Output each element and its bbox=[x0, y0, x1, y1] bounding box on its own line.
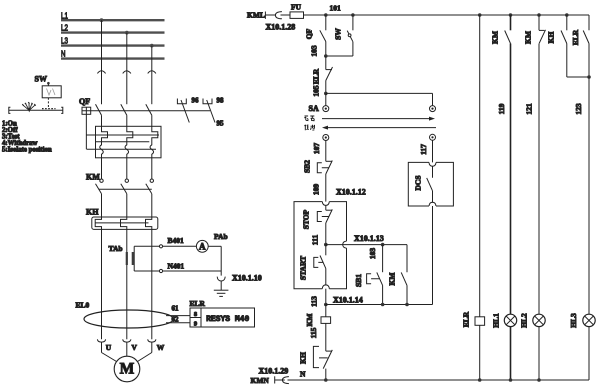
svg-text:N401: N401 bbox=[168, 262, 185, 271]
svg-text:121: 121 bbox=[525, 103, 534, 115]
label FU bbox=[291, 3, 302, 12]
wire to ground bbox=[220, 281, 222, 290]
svg-text:HL3: HL3 bbox=[569, 313, 578, 328]
core balance CT EL0 bbox=[84, 310, 173, 328]
wire phase A KH to motor plug bbox=[101, 229, 103, 339]
wire ELR coil column bbox=[479, 15, 481, 317]
drawout socket motor U bbox=[97, 339, 105, 342]
label L3 bbox=[61, 36, 68, 46]
pushbutton SB2 NC bbox=[317, 161, 332, 202]
box right socket bbox=[343, 241, 347, 248]
label position list bbox=[2, 121, 52, 154]
svg-text:ELR: ELR bbox=[312, 68, 321, 84]
svg-text:103: 103 bbox=[310, 45, 319, 57]
wire X10.1.13 rail bbox=[326, 244, 407, 246]
wire 123 bbox=[588, 77, 590, 314]
svg-text:KM: KM bbox=[305, 314, 314, 327]
svg-text:L1: L1 bbox=[61, 10, 68, 20]
svg-text:95: 95 bbox=[217, 120, 225, 128]
junction dot L1 tap bbox=[100, 18, 104, 22]
wire DCS to rail bbox=[432, 206, 434, 305]
label KM lamp1 rotated bbox=[491, 31, 500, 44]
label ELR coil rotated bbox=[462, 311, 471, 327]
wire ammeter to ground drop bbox=[208, 246, 221, 275]
label SB2 rotated bbox=[303, 160, 312, 173]
svg-text:123: 123 bbox=[574, 103, 583, 115]
label ELR power bbox=[190, 299, 206, 308]
svg-text:SB2: SB2 bbox=[303, 160, 312, 173]
thermal relay body KH bbox=[92, 217, 158, 229]
svg-text:111: 111 bbox=[311, 235, 320, 246]
svg-text:V: V bbox=[132, 343, 138, 352]
svg-text:KM: KM bbox=[388, 273, 397, 286]
label L1 bbox=[61, 10, 68, 20]
svg-text:101: 101 bbox=[330, 4, 342, 13]
contact KM NC lamp2 bbox=[539, 15, 546, 314]
svg-text:RESYS M40: RESYS M40 bbox=[206, 315, 249, 324]
label N bbox=[61, 49, 66, 59]
label X10.1.28 bbox=[266, 23, 296, 32]
drawout socket X10.1.10 bbox=[217, 277, 225, 281]
svg-text:HL1: HL1 bbox=[492, 313, 501, 328]
switch SW box bbox=[42, 82, 61, 98]
current transformer TAb bars bbox=[126, 252, 134, 265]
label 96 bbox=[192, 97, 200, 105]
label U bbox=[106, 343, 112, 352]
label 101 bbox=[330, 4, 342, 13]
wire W to motor bbox=[138, 342, 152, 361]
label SW rotated bbox=[334, 28, 343, 40]
wire phase B drop from L2 bbox=[126, 33, 128, 105]
node SB1 top dot bbox=[381, 243, 385, 247]
node 105 dot bbox=[324, 92, 328, 96]
wire U to motor bbox=[102, 342, 117, 361]
label 103 rotated bbox=[310, 45, 319, 57]
svg-text:L2: L2 bbox=[61, 23, 68, 33]
label KM seal rotated bbox=[388, 273, 397, 286]
wire phase B KH to motor plug bbox=[126, 229, 128, 339]
label DCS rotated bbox=[414, 175, 423, 190]
node 103 dot bbox=[324, 54, 328, 58]
SA pole local bottom bbox=[323, 135, 329, 141]
svg-text:KH: KH bbox=[547, 32, 556, 44]
node HL2 bottom dot bbox=[537, 378, 541, 382]
fuse FU bbox=[290, 12, 304, 19]
label N control bbox=[300, 370, 306, 379]
selector position fan bbox=[22, 102, 35, 112]
svg-text:L3: L3 bbox=[61, 36, 68, 46]
box top socket bbox=[322, 202, 329, 206]
label 107 rotated bbox=[312, 143, 321, 155]
wire phase B breaker to KM bbox=[126, 158, 128, 179]
KM main contact phase B bbox=[121, 179, 129, 217]
label HL3 rotated bbox=[569, 313, 578, 328]
svg-text:X10.1.12: X10.1.12 bbox=[336, 188, 366, 197]
ammeter PAb bbox=[196, 240, 208, 252]
breaker body box QF bbox=[96, 126, 162, 158]
label START rotated bbox=[299, 256, 308, 280]
ELR NC contact control bbox=[326, 56, 333, 93]
svg-text:X10.1.29: X10.1.29 bbox=[259, 366, 289, 375]
label SB1 rotated bbox=[354, 274, 363, 287]
contact KM lamp1 bbox=[505, 15, 511, 314]
svg-text:HL2: HL2 bbox=[520, 313, 529, 328]
SA wiper local bbox=[322, 126, 436, 130]
coil KM bbox=[321, 305, 331, 352]
label KM lamp2 rotated bbox=[524, 31, 533, 44]
label X10.1.13 bbox=[354, 234, 384, 243]
label 113 rotated bbox=[310, 296, 319, 307]
svg-text:A: A bbox=[199, 242, 206, 252]
wire phase C KH to motor plug bbox=[151, 229, 153, 339]
QF operator link wire bbox=[85, 114, 87, 149]
svg-text:KM: KM bbox=[524, 31, 533, 44]
wire 62 bbox=[166, 322, 190, 324]
label SA bbox=[309, 104, 319, 113]
svg-text:X10.1.28: X10.1.28 bbox=[266, 23, 296, 32]
TAb secondary loop bbox=[133, 246, 135, 271]
label ELR rotated bbox=[312, 68, 321, 84]
control top rail bbox=[304, 14, 590, 16]
svg-text:113: 113 bbox=[310, 296, 319, 307]
svg-text:W: W bbox=[157, 343, 165, 352]
relay RESYS M40 bbox=[201, 308, 255, 327]
KM main contact phase A bbox=[96, 179, 104, 217]
label 109 rotated bbox=[312, 184, 321, 196]
motor M bbox=[114, 356, 140, 382]
svg-text:SW: SW bbox=[334, 28, 343, 40]
node KM seal dot bbox=[405, 303, 409, 307]
svg-text:TAb: TAb bbox=[109, 244, 123, 253]
label KM coil rotated bbox=[305, 314, 314, 327]
KH heater element phase B bbox=[121, 217, 127, 229]
svg-text:109: 109 bbox=[312, 184, 321, 196]
svg-text:X10.1.10: X10.1.10 bbox=[232, 274, 262, 283]
wire B401 bbox=[134, 245, 196, 248]
coil ELR bbox=[475, 317, 485, 380]
label 115 rotated bbox=[309, 327, 318, 338]
node SB1 bottom dot bbox=[381, 303, 385, 307]
bus bar N bbox=[61, 57, 165, 59]
node ELR column bottom dot bbox=[478, 378, 482, 382]
SW aux contact control bbox=[326, 15, 353, 56]
label QF rotated bbox=[305, 28, 314, 39]
breaker internal bar A bbox=[87, 134, 160, 136]
label L2 bbox=[61, 23, 68, 33]
wire HL1 bottom bbox=[510, 327, 512, 380]
label ELR lamp rotated bbox=[571, 29, 580, 45]
label X10.1.14 bbox=[333, 296, 363, 305]
lamp HL3 bbox=[583, 314, 595, 326]
svg-text:98: 98 bbox=[217, 97, 225, 105]
node KH column top dot bbox=[565, 13, 569, 17]
svg-text:103: 103 bbox=[368, 248, 377, 260]
pushbutton START NO bbox=[314, 245, 326, 285]
KM seal-in contact bbox=[401, 245, 407, 305]
node 111 dot bbox=[324, 243, 328, 247]
wire 61 bbox=[166, 315, 190, 317]
label KH lamp rotated bbox=[547, 32, 556, 44]
label PAb bbox=[214, 232, 228, 241]
pushbutton SB1 NO bbox=[367, 245, 383, 305]
label STOP rotated bbox=[302, 209, 311, 229]
label V bbox=[132, 343, 138, 352]
label KML bbox=[247, 11, 265, 20]
svg-text:EL0: EL0 bbox=[76, 301, 90, 310]
QF pole contact phase B bbox=[121, 104, 127, 126]
svg-text:ELR: ELR bbox=[190, 299, 206, 308]
SW mechanical dashed link bbox=[42, 98, 56, 109]
svg-text:107: 107 bbox=[312, 143, 321, 155]
label KH power bbox=[86, 207, 99, 216]
svg-text:U: U bbox=[106, 343, 112, 352]
label TAb bbox=[109, 244, 123, 253]
contact KH lamp bbox=[561, 15, 589, 77]
KH heater element phase A bbox=[95, 217, 101, 229]
label X10.1.12 bbox=[336, 188, 366, 197]
svg-text:KML: KML bbox=[247, 11, 265, 20]
svg-text:B401: B401 bbox=[168, 236, 185, 245]
QF aux contact cradle 96 bbox=[177, 99, 186, 104]
breaker internal bar C bbox=[87, 148, 157, 150]
bus bar L2 bbox=[61, 31, 165, 33]
junction dot L2 tap bbox=[125, 31, 129, 35]
wire N401 bbox=[134, 269, 221, 272]
label W bbox=[157, 343, 165, 352]
svg-text:62: 62 bbox=[172, 316, 180, 324]
svg-text:START: START bbox=[299, 256, 308, 280]
svg-text:QF: QF bbox=[305, 28, 314, 39]
svg-text:61: 61 bbox=[172, 305, 180, 313]
DCS box top socket bbox=[429, 162, 436, 166]
wire V to motor bbox=[126, 342, 128, 356]
label KH control rotated bbox=[299, 352, 308, 364]
label SW bbox=[35, 75, 47, 84]
connector socket KML bbox=[275, 12, 290, 19]
label local CJK bbox=[304, 125, 314, 131]
DCS box bbox=[408, 162, 453, 206]
label remote CJK bbox=[304, 116, 314, 121]
wire HL3 bottom bbox=[588, 327, 590, 380]
drawout plug chevron phase C bbox=[148, 71, 156, 74]
terminal box 8 9 bbox=[190, 308, 201, 327]
svg-text:117: 117 bbox=[419, 144, 428, 155]
breaker release element phase C bbox=[150, 126, 158, 158]
svg-text:STOP: STOP bbox=[302, 209, 311, 229]
svg-text:KM: KM bbox=[491, 31, 500, 44]
SA pole remote bottom bbox=[430, 134, 436, 140]
breaker operator box QF bbox=[82, 107, 91, 114]
svg-text:105: 105 bbox=[312, 85, 321, 97]
local station box bbox=[294, 202, 347, 289]
label 95 bbox=[217, 120, 225, 128]
QF aux contact blade 96 bbox=[181, 100, 189, 123]
wire X10.1.14 rail bbox=[326, 304, 433, 306]
bus bar L3 bbox=[61, 44, 165, 46]
lamp HL2 bbox=[533, 314, 545, 326]
ground symbol bbox=[214, 290, 229, 296]
label HL2 rotated bbox=[520, 313, 529, 328]
label 117 rotated bbox=[419, 144, 428, 155]
breaker internal bar B bbox=[96, 141, 149, 143]
wire phase A drop from L1 bbox=[101, 20, 103, 104]
svg-text:SW: SW bbox=[35, 75, 47, 84]
SA wiper remote bbox=[322, 117, 435, 121]
node 119 top dot bbox=[509, 13, 513, 17]
svg-text:X10.1.13: X10.1.13 bbox=[354, 234, 384, 243]
drawout plug chevron phase A bbox=[97, 71, 105, 74]
wire phase C breaker to KM bbox=[151, 158, 153, 179]
svg-text:115: 115 bbox=[309, 327, 318, 338]
svg-text:N: N bbox=[61, 49, 66, 59]
node 123 dot bbox=[587, 75, 591, 79]
label 103 branch rotated bbox=[368, 248, 377, 260]
KH heater element phase C bbox=[146, 217, 152, 229]
contact ELR lamp bbox=[583, 15, 589, 77]
svg-text:5:Isolate position: 5:Isolate position bbox=[2, 147, 52, 154]
svg-text:FU: FU bbox=[291, 3, 302, 12]
svg-text:ELR: ELR bbox=[571, 29, 580, 45]
QF aux contact cradle 98 bbox=[203, 99, 212, 104]
box bottom socket bbox=[322, 285, 329, 289]
wire 113 bbox=[325, 289, 327, 305]
svg-text:SA: SA bbox=[309, 104, 319, 113]
breaker release element phase B bbox=[125, 126, 133, 158]
svg-text:96: 96 bbox=[192, 97, 200, 105]
label 121 rotated bbox=[525, 103, 534, 115]
QF pole contact phase C bbox=[146, 104, 152, 126]
label 105 rotated bbox=[312, 85, 321, 97]
label X10.1.10 bbox=[232, 274, 262, 283]
QF aux contact control bbox=[320, 15, 326, 56]
svg-text:X10.1.14: X10.1.14 bbox=[333, 296, 363, 305]
KM contact linkage line bbox=[99, 188, 152, 190]
label 111 rotated bbox=[311, 235, 320, 246]
position travel bar bbox=[9, 107, 63, 113]
wire to SA remote column bbox=[326, 93, 433, 105]
label 98 bbox=[217, 97, 225, 105]
breaker release element phase A bbox=[100, 126, 108, 158]
node ELR column top dot bbox=[478, 13, 482, 17]
KM main contact phase C bbox=[146, 179, 154, 217]
label 119 rotated bbox=[497, 103, 506, 114]
QF trip linkage line bbox=[91, 110, 210, 112]
label X10.1.29 bbox=[259, 366, 289, 375]
KH linkage line bbox=[95, 222, 148, 224]
node 121 top dot bbox=[537, 13, 541, 17]
QF pole contact phase A bbox=[96, 104, 102, 126]
wire 107 bbox=[325, 141, 327, 162]
connector socket KMN bbox=[282, 377, 289, 384]
connector pin KMN bbox=[275, 376, 285, 383]
DCS contact bbox=[427, 166, 433, 202]
svg-text:N: N bbox=[300, 370, 306, 379]
connector pin KML bbox=[265, 12, 275, 19]
bus bar L1 bbox=[61, 19, 165, 21]
label QF bbox=[79, 97, 90, 106]
svg-text:PAb: PAb bbox=[214, 232, 228, 241]
label 62 bbox=[172, 316, 180, 324]
node HL1 bottom dot bbox=[509, 378, 513, 382]
wire HL2 bottom bbox=[538, 327, 540, 380]
drawout socket motor W bbox=[148, 339, 156, 342]
node 113 dot bbox=[324, 303, 328, 307]
junction dot L3 tap bbox=[150, 44, 154, 48]
svg-text:KM: KM bbox=[86, 173, 100, 182]
drawout socket motor V bbox=[123, 339, 131, 342]
svg-text:M: M bbox=[120, 361, 135, 378]
svg-text:119: 119 bbox=[497, 103, 506, 114]
control bottom rail bbox=[288, 379, 590, 381]
svg-text:KH: KH bbox=[86, 207, 99, 216]
lamp HL1 bbox=[504, 314, 516, 326]
pushbutton STOP NC bbox=[317, 205, 332, 244]
node SW branch dot bbox=[351, 13, 355, 17]
DCS box bottom socket bbox=[429, 202, 436, 206]
node KH bottom dot bbox=[324, 378, 328, 382]
node 101 dot bbox=[324, 13, 328, 17]
svg-text:ELR: ELR bbox=[462, 311, 471, 327]
contact KH control NC bbox=[313, 346, 332, 380]
svg-text:KH: KH bbox=[299, 352, 308, 364]
SA pole local top bbox=[323, 93, 329, 111]
label KMN bbox=[251, 376, 270, 385]
drawout plug chevron phase B bbox=[123, 71, 131, 74]
DCS remote circle wire bbox=[432, 140, 434, 162]
label N401 bbox=[168, 262, 185, 271]
svg-text:QF: QF bbox=[79, 97, 90, 106]
label 61 bbox=[172, 305, 180, 313]
QF aux contact blade 98-95 bbox=[207, 100, 215, 123]
SA pole remote top bbox=[430, 106, 436, 112]
svg-text:DCS: DCS bbox=[414, 175, 423, 190]
label HL1 rotated bbox=[492, 313, 501, 328]
wire phase A breaker to KM bbox=[101, 158, 103, 179]
label KM power bbox=[86, 173, 100, 182]
wire phase C drop from L3 bbox=[151, 46, 153, 105]
label 123 rotated bbox=[574, 103, 583, 115]
label B401 bbox=[168, 236, 185, 245]
svg-text:KMN: KMN bbox=[251, 376, 270, 385]
label EL0 bbox=[76, 301, 90, 310]
svg-text:SB1: SB1 bbox=[354, 274, 363, 287]
